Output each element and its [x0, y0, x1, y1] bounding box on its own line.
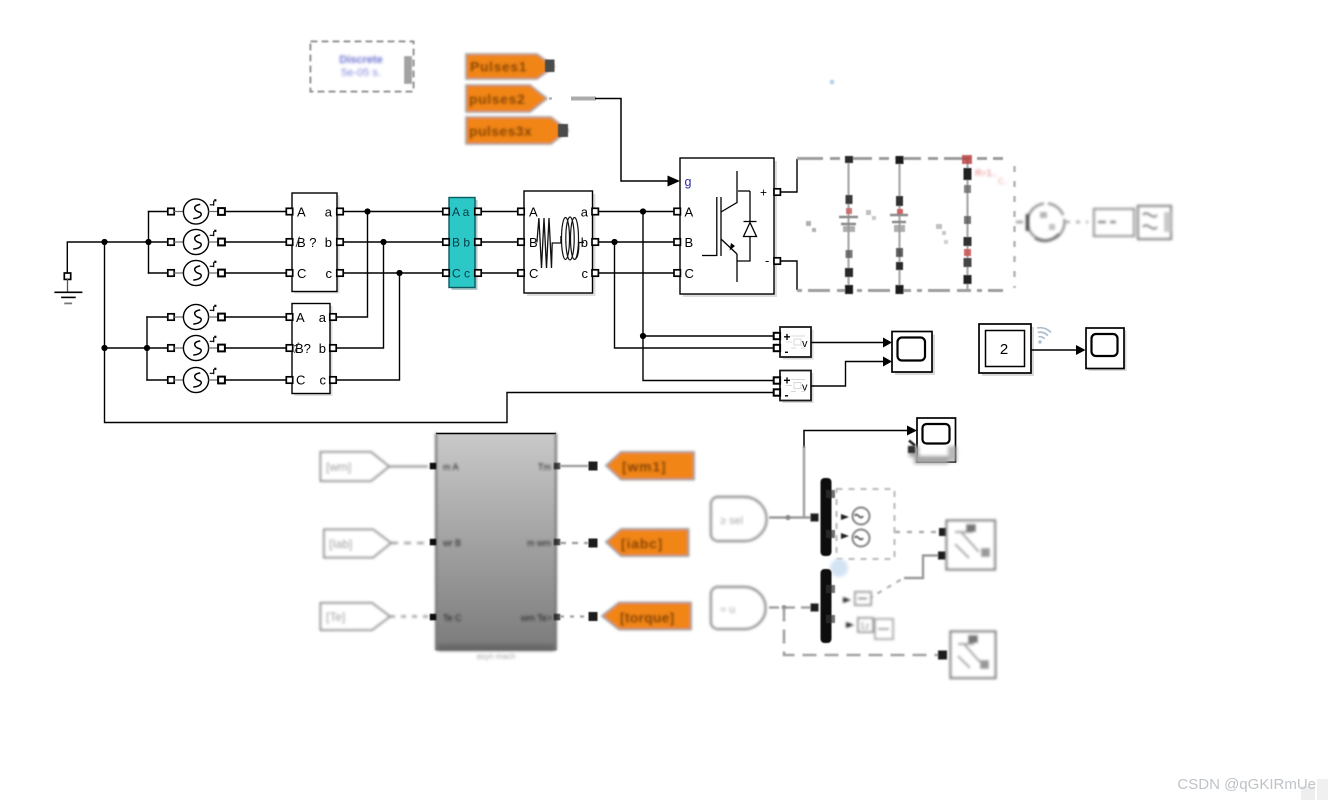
subsystem block B (faded) [951, 632, 996, 679]
wire VM1 to scope1 [811, 342, 883, 344]
From tag pulses2 [466, 85, 547, 112]
svg-text:wm Te>: wm Te> [520, 613, 552, 623]
asynchronous machine gray block [430, 433, 561, 661]
wire to scope3 [804, 431, 908, 449]
svg-text:pulses3x: pulses3x [469, 123, 532, 139]
wires transformer to bridge [599, 212, 675, 274]
three-phase V-I measurement block 1 [286, 193, 343, 294]
wire netB down to VM1 minus [615, 242, 774, 348]
From tag pulses1 [466, 54, 555, 79]
gray block ports [430, 463, 561, 621]
wireless signal icon [1033, 326, 1052, 346]
voltage measurement VM2 [774, 371, 814, 404]
wire lower bus branch [105, 347, 148, 349]
current measurement circle (faded) [1016, 204, 1088, 241]
wire group2 vertical [146, 317, 148, 380]
svg-text:B b: B b [452, 236, 470, 250]
svg-text:[wm]: [wm] [326, 460, 351, 474]
svg-text:C: C [529, 266, 538, 281]
powergui block [311, 42, 414, 92]
port labels (blurred) [442, 462, 552, 623]
ports [674, 208, 680, 214]
wires block1 outputs to teal block [344, 212, 444, 274]
scope Scope2 [1086, 328, 1127, 371]
svg-text:m wm: m wm [527, 538, 551, 548]
From tag white 3 [321, 603, 429, 630]
top rail [797, 157, 1003, 160]
mux selector bar 1 [821, 478, 836, 556]
node bus-lower [101, 345, 107, 351]
AC source Vb [168, 229, 225, 254]
svg-text:asyn mach: asyn mach [477, 652, 516, 661]
svg-text:B ?: B ? [297, 235, 317, 250]
svg-text:[Te]: [Te] [326, 610, 345, 624]
svg-text:-: - [785, 345, 789, 359]
svg-text:a: a [581, 205, 589, 220]
dashed box around sine icons [837, 489, 895, 559]
wire netC vertical to block2 c [337, 273, 400, 380]
svg-text:v: v [802, 382, 808, 394]
node netA [364, 208, 370, 214]
red annotation text [975, 168, 1008, 186]
svg-text:pulses2: pulses2 [469, 91, 525, 107]
svg-text:+: + [784, 374, 791, 388]
svg-text:-: - [785, 388, 789, 402]
three-phase transformer block [518, 191, 599, 296]
AC source Va2 [168, 304, 225, 329]
svg-text:wr B: wr B [442, 538, 461, 548]
white D pill 2 [711, 587, 766, 629]
ground symbol [55, 273, 81, 303]
RLC branch 1 [839, 156, 858, 294]
svg-text:-: - [765, 253, 769, 268]
svg-text:CSDN @qGKIRmUe: CSDN @qGKIRmUe [1177, 776, 1316, 793]
svg-text:C: C [685, 266, 694, 281]
blue smudge [830, 559, 848, 577]
wire stubs group2 to sources [147, 317, 168, 380]
svg-text:[iabc]: [iabc] [621, 536, 663, 552]
Goto tag orange 1 [560, 452, 694, 480]
svg-text:[wm1]: [wm1] [622, 459, 666, 475]
constant display block "2" [979, 324, 1034, 376]
From tag white 1 [321, 452, 429, 481]
node group2-bus [144, 345, 150, 351]
svg-text:Pulses1: Pulses1 [470, 59, 527, 75]
node group1-bus [145, 239, 151, 245]
svg-text:C: C [297, 266, 306, 281]
svg-text:Te C: Te C [443, 613, 462, 623]
svg-text:A: A [685, 205, 694, 220]
svg-text:b: b [319, 341, 326, 356]
AC source Vc2 [168, 367, 225, 392]
RLC load dashed subsystem (faded) [797, 155, 1015, 294]
small gain icons right of mux2 [843, 592, 893, 639]
svg-text:C: C [296, 373, 305, 388]
svg-text:v: v [802, 338, 808, 350]
primary winding zigzag [537, 218, 561, 268]
IGBT symbol [702, 171, 750, 282]
wire main vertical bus [105, 242, 774, 423]
svg-text:≥ sel: ≥ sel [720, 515, 743, 527]
AC source Va [168, 199, 225, 224]
wire constant to scope2 [1031, 349, 1076, 351]
secondary winding loops [562, 217, 585, 260]
bottom rail [797, 289, 1003, 292]
white D pill 1 [711, 497, 767, 541]
svg-text:c: c [582, 266, 589, 281]
wire pill2 to mux2 and down [769, 604, 947, 660]
faded comparator blocks right of circle [1094, 206, 1171, 239]
scope Scope1 [892, 332, 935, 376]
wires teal to transformer [482, 212, 519, 274]
svg-text:B: B [685, 235, 694, 250]
node bridgeB tap [611, 239, 617, 245]
Goto tag orange 2 [560, 529, 689, 556]
node netC [396, 270, 402, 276]
arrowhead into g [668, 176, 681, 187]
vertical wire from scope3 wire down to selector [803, 446, 805, 518]
node bus-top [101, 239, 107, 245]
faint blue speck [830, 80, 835, 85]
From tag pulses3 [466, 117, 568, 144]
teal subsystem block [443, 198, 481, 291]
svg-text:c: c [320, 373, 327, 388]
svg-text:C..: C.. [998, 177, 1008, 186]
svg-text:g: g [685, 175, 692, 189]
wire pill1 to mux1 [769, 514, 819, 522]
svg-text:≈ u: ≈ u [720, 604, 735, 616]
svg-text:+: + [760, 186, 767, 200]
wire ground horizontal to bus [67, 242, 148, 279]
svg-text:Discrete: Discrete [339, 54, 382, 66]
Goto tag orange 3 [560, 603, 691, 630]
AC source Vc [168, 260, 225, 285]
LEFT SECTION [55, 212, 773, 423]
svg-text:b: b [325, 235, 332, 250]
svg-text:B: B [529, 235, 538, 250]
wire from tag2 to bridge g [549, 99, 668, 182]
svg-text:1z: 1z [860, 621, 870, 631]
svg-text:a: a [325, 205, 333, 220]
wire VM2 to scope1 [811, 362, 883, 387]
AC source Vb2 [168, 335, 225, 360]
universal bridge block [674, 158, 780, 297]
wire netA down to voltage measurements [643, 212, 774, 381]
svg-text:A a: A a [452, 205, 470, 219]
wire stubs group1 to sources [149, 212, 168, 274]
svg-text:2: 2 [1000, 341, 1008, 358]
svg-text:a: a [319, 310, 327, 325]
watermark corner blocks [1301, 786, 1315, 800]
subsystem block A (faded) [947, 521, 996, 570]
node netB [380, 239, 386, 245]
svg-text:5e-05 s.: 5e-05 s. [341, 67, 381, 79]
three-phase V-I measurement block 2 [286, 304, 336, 397]
anti-parallel diode [737, 191, 757, 261]
svg-text:[torque]: [torque] [620, 610, 674, 626]
scope Scope3 [908, 418, 957, 464]
node bridgeA tap [640, 208, 646, 214]
From tag white 2 [324, 530, 428, 558]
svg-text:c: c [326, 266, 333, 281]
svg-text:A: A [296, 310, 305, 325]
svg-text:R=1..: R=1.. [975, 168, 997, 178]
RLC branch 2 [890, 156, 908, 294]
wire bridge plus to RLC rail [781, 159, 798, 192]
voltage measurement VM1 [774, 327, 814, 360]
right border dashed [1013, 166, 1016, 288]
wire group1 vertical [148, 212, 150, 274]
wires sources to measurement block 1 [225, 212, 286, 381]
svg-text:A: A [297, 205, 306, 220]
scope1 input arrows [883, 338, 892, 348]
wire netA vertical to block2 a [337, 212, 368, 318]
svg-text:m A: m A [443, 462, 459, 472]
AC SOURCES [168, 199, 225, 393]
mux selector bar 2 [821, 569, 836, 643]
elbow wire to subsystem A lower port [868, 552, 946, 600]
dashed wire to subsystem A [895, 528, 947, 536]
svg-text:A: A [529, 205, 538, 220]
wire netB vertical to block2 b [337, 242, 384, 348]
wire tap to VM1 plus [643, 335, 774, 337]
wire bridge minus to RLC rail [781, 261, 798, 290]
svg-text:B?: B? [295, 341, 311, 356]
svg-text:Tm: Tm [538, 462, 551, 472]
RLC branch 3 [962, 155, 972, 289]
svg-text:+: + [784, 330, 791, 344]
stray specks [806, 210, 948, 244]
svg-text:C c: C c [452, 267, 470, 281]
node VM1plus tap [640, 333, 646, 339]
svg-text:[Iab]: [Iab] [329, 537, 352, 551]
